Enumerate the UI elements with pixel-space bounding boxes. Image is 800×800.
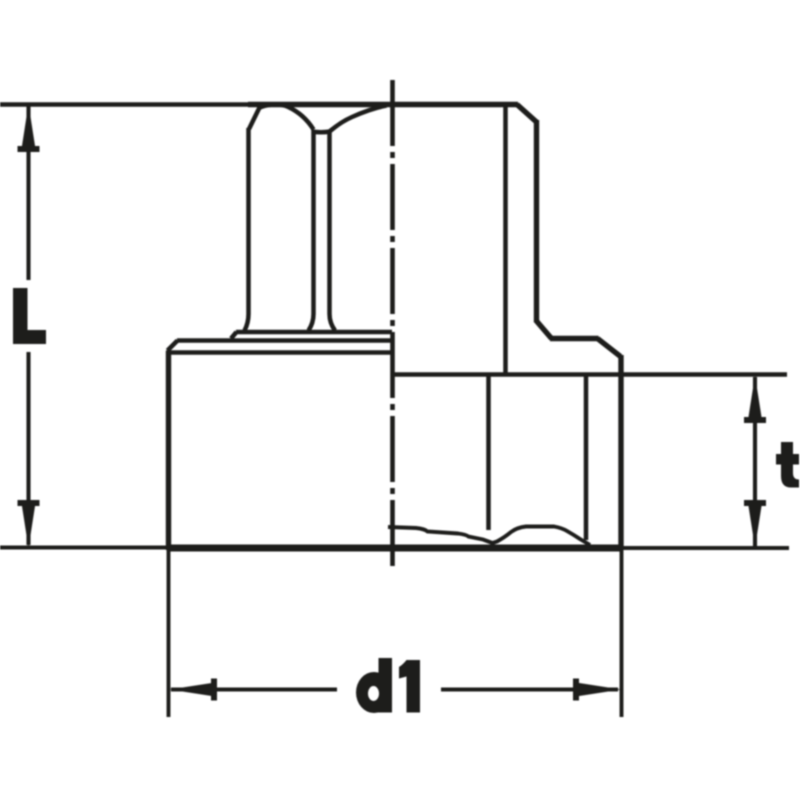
arrowhead L down xyxy=(22,503,36,548)
bottom extension line left xyxy=(0,545,170,549)
label d counter xyxy=(368,686,379,701)
cavity wall line outer xyxy=(584,376,589,540)
lower body right edge xyxy=(618,355,623,549)
label t stem and foot xyxy=(781,442,799,488)
arrowhead t up base tick xyxy=(744,417,766,423)
bottom extension line right xyxy=(620,546,789,550)
hex left edge xyxy=(245,128,249,331)
dimension L line lower segment xyxy=(26,352,30,545)
hex corner line right xyxy=(330,131,336,331)
dimension L line upper segment xyxy=(26,106,30,280)
upper bore line xyxy=(503,107,508,373)
collar top edge xyxy=(236,330,392,335)
top face extension line xyxy=(0,102,250,107)
arrowhead t up xyxy=(748,376,762,421)
top right chamfer xyxy=(517,105,537,123)
body top edge xyxy=(166,350,392,355)
arrowhead L up base tick xyxy=(18,146,40,152)
wavy break line xyxy=(388,527,590,546)
step chamfer lower xyxy=(598,339,621,357)
dimension d1 line right segment xyxy=(441,687,618,691)
collar left chamfer xyxy=(168,341,178,351)
arrowhead L down base tick xyxy=(18,500,40,506)
arrowhead d1 left xyxy=(170,683,216,697)
label d stem xyxy=(379,658,393,713)
arrowhead L up xyxy=(22,104,36,149)
step horizontal face xyxy=(550,336,599,341)
arrowhead d1 left base tick xyxy=(211,679,217,701)
hex corner line left xyxy=(309,130,314,331)
dimension t line xyxy=(753,377,757,546)
socket shoulder line and t top extension xyxy=(393,372,787,377)
dimension d1 extension left xyxy=(167,550,171,717)
hex chamfer arc right flat xyxy=(330,106,387,132)
arrowhead d1 right xyxy=(576,683,621,697)
top face line xyxy=(248,102,518,107)
arrowhead t down xyxy=(748,503,762,548)
label L xyxy=(13,288,46,344)
upper body right edge xyxy=(534,120,539,323)
hex left edge chamfer xyxy=(249,108,260,130)
label d bowl xyxy=(356,672,392,713)
collar face edge xyxy=(177,338,392,343)
dimension d1 extension right xyxy=(620,550,624,717)
cavity wall line inner xyxy=(486,376,491,530)
dimension d1 line left segment xyxy=(171,687,337,691)
step chamfer upper xyxy=(537,321,552,339)
body bottom edge xyxy=(168,545,622,552)
hex chamfer arc left flat xyxy=(258,105,314,130)
centerline dash-dot xyxy=(390,80,395,566)
arrowhead t down base tick xyxy=(744,500,766,506)
body left edge xyxy=(166,351,171,550)
collar top left step xyxy=(231,332,237,339)
label t crossbar xyxy=(776,454,799,465)
hex saddle bridge xyxy=(312,129,330,134)
arrowhead d1 right base tick xyxy=(573,679,579,701)
label 1 xyxy=(399,660,420,713)
